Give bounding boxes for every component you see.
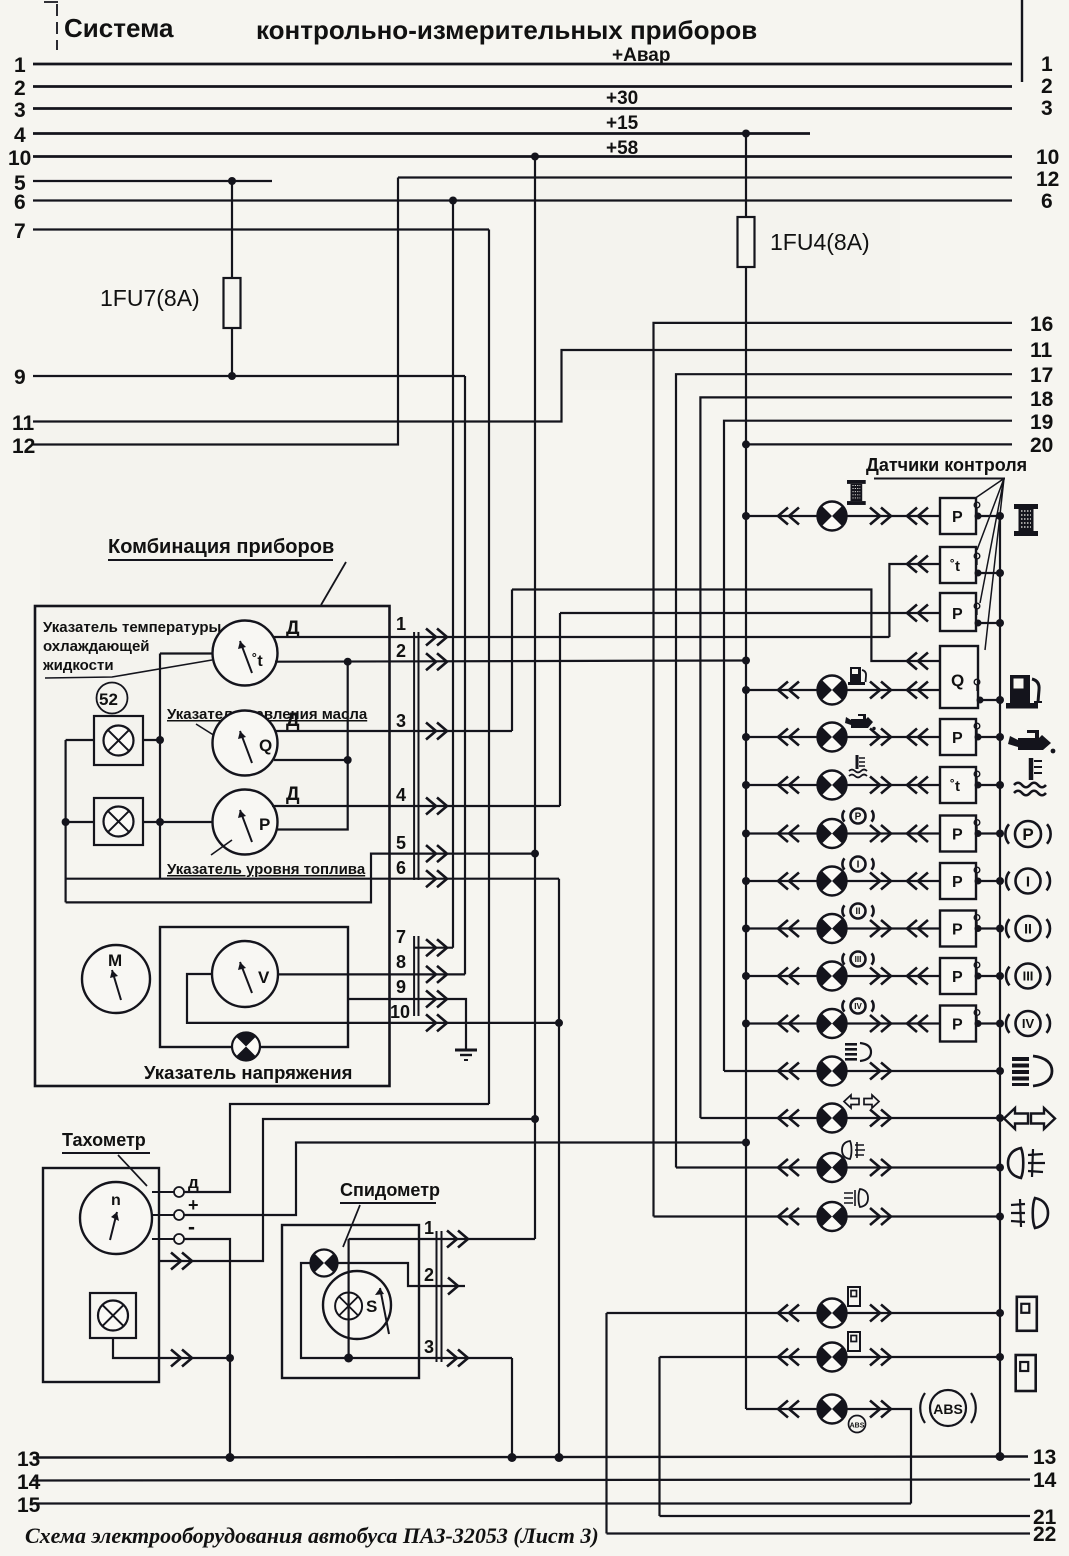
junction line4/fuse xyxy=(742,130,750,138)
svg-text:2: 2 xyxy=(14,77,26,100)
icon brake III big xyxy=(1016,964,1041,989)
svg-text:1: 1 xyxy=(424,1218,434,1238)
wire lamp1 right xyxy=(143,739,160,741)
fuse 1FU4 xyxy=(738,217,755,267)
sensor row brake II xyxy=(746,927,940,929)
indicator row turn signals xyxy=(700,1117,1000,1119)
ABS indicator row xyxy=(746,1409,911,1504)
leader to cluster box xyxy=(321,562,346,605)
vertical line6 to cluster pin7 xyxy=(452,201,454,948)
junction pin5/line10 feed xyxy=(531,850,539,858)
speedo connector bars xyxy=(437,1231,442,1362)
svg-text:II: II xyxy=(1024,921,1032,937)
wire speedo lamp left loop xyxy=(301,1263,512,1358)
svg-text:6: 6 xyxy=(1041,190,1053,213)
wire cluster pin9 to ground xyxy=(348,999,466,1050)
svg-text:Д: Д xyxy=(286,618,300,639)
junction lamp1/gauge bus xyxy=(156,736,164,744)
lamp L2 xyxy=(104,807,134,837)
icon turn small xyxy=(844,1095,879,1108)
svg-text:15: 15 xyxy=(17,1494,41,1517)
svg-text:3: 3 xyxy=(14,99,26,122)
icon turn big xyxy=(1004,1108,1055,1129)
cluster connector bars lower xyxy=(414,936,418,1016)
svg-text:охлаждающей: охлаждающей xyxy=(43,638,150,655)
indicator row high beam xyxy=(724,1070,1000,1072)
svg-text:1: 1 xyxy=(396,614,406,634)
lamp 52 label xyxy=(97,683,128,714)
wire cluster pin2 xyxy=(275,661,746,662)
svg-text:III: III xyxy=(1023,969,1034,984)
svg-text:IV: IV xyxy=(854,1002,862,1011)
svg-text:Схема электрооборудования авто: Схема электрооборудования автобуса ПАЗ-3… xyxy=(25,1523,599,1548)
icon door 2 small xyxy=(848,1332,860,1351)
icon brake IV small xyxy=(851,999,866,1014)
svg-text:n: n xyxy=(111,1192,121,1209)
svg-text:P: P xyxy=(952,606,963,623)
icon air filter small xyxy=(847,480,866,505)
junction oil gauge/minus bus xyxy=(344,756,352,764)
svg-text:P: P xyxy=(952,730,963,747)
svg-text:52: 52 xyxy=(99,690,118,709)
wire bus 17 xyxy=(676,374,1012,1167)
icon marker lamps small xyxy=(842,1141,865,1159)
vertical line9 to cluster pin8 xyxy=(464,376,466,974)
svg-text:22: 22 xyxy=(1033,1523,1056,1546)
wire pin3 to fuel sensor xyxy=(512,590,940,662)
wire tach lamp to minus drop xyxy=(113,1338,230,1358)
svg-text:7: 7 xyxy=(14,220,26,243)
wire bus 21 xyxy=(660,1515,1031,1517)
speedo lamp string vertical xyxy=(348,1239,350,1358)
svg-text:20: 20 xyxy=(1030,434,1053,457)
svg-text:9: 9 xyxy=(14,366,26,389)
svg-text:3: 3 xyxy=(1041,97,1053,120)
cluster box Комбинация приборов xyxy=(35,606,390,1086)
svg-text:Спидометр: Спидометр xyxy=(340,1180,440,1200)
wire cluster pin3 xyxy=(275,730,512,732)
icon brake IV big xyxy=(1016,1011,1041,1036)
icon oil can big xyxy=(1008,730,1055,753)
speedo gauge circle S xyxy=(323,1271,391,1339)
wire bus 22 xyxy=(607,1532,1031,1534)
svg-text:I: I xyxy=(1026,873,1030,890)
svg-text:18: 18 xyxy=(1030,388,1054,411)
ground xyxy=(455,1049,477,1052)
svg-text:жидкости: жидкости xyxy=(42,657,114,674)
svg-text:11: 11 xyxy=(1030,339,1053,362)
wire bus 15 xyxy=(33,1502,911,1504)
junction pin10/line13 drop xyxy=(555,1019,563,1027)
svg-text:P: P xyxy=(952,874,963,891)
icon door 1 small xyxy=(848,1287,860,1306)
svg-text:16: 16 xyxy=(1030,313,1053,336)
vertical line10 feed to speedometer pin1 xyxy=(534,157,536,1240)
tach lamp box xyxy=(90,1293,136,1338)
svg-text:13: 13 xyxy=(17,1448,40,1471)
icon door 2 big xyxy=(1016,1355,1036,1391)
wire bus 9 xyxy=(33,375,465,377)
wire oil gauge lower xyxy=(274,759,348,761)
vertical cluster pin4 to oil sensor wire xyxy=(559,613,561,806)
wire pin1 to temp sensor xyxy=(889,564,940,637)
sensor row coolant temp xyxy=(746,784,940,786)
wire bus 12 left xyxy=(33,178,398,445)
svg-text:3: 3 xyxy=(396,711,406,731)
speedo inner lamp xyxy=(335,1293,362,1320)
svg-text:3: 3 xyxy=(424,1337,434,1357)
svg-text:6: 6 xyxy=(14,191,26,214)
svg-text:-: - xyxy=(188,1216,195,1239)
junction lamp2/left bus xyxy=(62,818,70,826)
junctions on line 13 xyxy=(226,1453,235,1462)
svg-text:6: 6 xyxy=(396,858,406,878)
leader to tach box xyxy=(118,1155,147,1186)
wire bus 2 xyxy=(33,85,1012,88)
svg-text:9: 9 xyxy=(396,977,406,997)
wire + to lamp bus xyxy=(184,1143,746,1216)
wire bus 14 xyxy=(33,1480,1030,1481)
tach terminal - xyxy=(152,1238,174,1240)
leader fan to sensors xyxy=(974,479,1004,651)
speedo two-tone lamp xyxy=(311,1250,338,1277)
vertical door1 to line22 xyxy=(605,1313,607,1534)
svg-text:Комбинация приборов: Комбинация приборов xyxy=(108,536,334,558)
junction lamp string / pin3 wire xyxy=(344,1354,353,1363)
indicator row door 1 xyxy=(607,1312,1001,1314)
wire bus 19 xyxy=(724,421,1012,1071)
svg-text:Д: Д xyxy=(286,784,300,805)
icon ABS small xyxy=(849,1416,866,1433)
wire bus 20 xyxy=(746,443,1012,445)
svg-text:I: I xyxy=(857,860,860,871)
wire д to line7 drop xyxy=(184,1104,489,1192)
svg-text:11: 11 xyxy=(12,412,35,435)
wire voltmeter plus pin8 xyxy=(278,973,465,975)
tach output wire to speedo feed xyxy=(159,1119,535,1261)
svg-text:Указатель уровня топлива: Указатель уровня топлива xyxy=(167,861,366,878)
junction line20/lamp bus xyxy=(742,440,750,448)
wire bus 6 xyxy=(33,199,1012,201)
sensor box coolant temp gauge sender xyxy=(940,547,976,583)
indicator row door 2 xyxy=(660,1356,1001,1358)
connector arrows pins1-10 xyxy=(426,629,447,646)
icon brake III small xyxy=(851,952,866,967)
sensor row brake IV xyxy=(746,1022,940,1024)
icon brake I small xyxy=(851,857,866,872)
svg-text:Q: Q xyxy=(259,736,272,755)
icon brake II small xyxy=(851,904,866,919)
leader to temp gauge xyxy=(45,660,212,678)
icon fog big xyxy=(1011,1198,1048,1228)
wire lamp2 left xyxy=(66,821,94,823)
junction line10 xyxy=(531,153,539,161)
tach terminal + xyxy=(152,1214,174,1216)
junction pin2/lamp bus xyxy=(742,657,750,665)
sensor row park brake xyxy=(746,832,940,834)
temp gauge circle xyxy=(213,621,278,686)
svg-text:7: 7 xyxy=(396,927,406,947)
wire bus 10 (+58) xyxy=(33,155,1012,158)
svg-text:+15: +15 xyxy=(606,113,639,134)
svg-text:Указатель напряжения: Указатель напряжения xyxy=(144,1062,352,1083)
tach terminal д xyxy=(152,1191,174,1193)
icon marker lamps big xyxy=(1008,1148,1045,1178)
svg-text:ABS: ABS xyxy=(850,1423,865,1430)
junction lamp2/gauge bus xyxy=(156,818,164,826)
svg-text:P: P xyxy=(952,922,963,939)
gauge left bus vertical xyxy=(159,654,161,879)
wire bus 18 xyxy=(700,397,1012,1118)
wire cluster pin7 stub xyxy=(414,947,453,949)
icon fuel small xyxy=(848,667,866,685)
svg-text:1: 1 xyxy=(1041,53,1053,76)
wire bus 12 right xyxy=(398,176,1012,178)
junction + wire / lamp bus xyxy=(742,1139,750,1147)
sensor box oil pressure sender xyxy=(940,593,976,631)
junction line6 xyxy=(449,197,457,205)
svg-text:контрольно-измерительных прибо: контрольно-измерительных приборов xyxy=(256,15,757,45)
lamps left bus vertical xyxy=(64,740,66,902)
wire bus 11 left xyxy=(33,350,1012,422)
wire bus 1 xyxy=(33,63,1012,66)
wire cluster pin5 jumper xyxy=(66,854,535,903)
svg-text:19: 19 xyxy=(1030,411,1053,434)
cluster connector bars upper xyxy=(414,632,418,880)
svg-text:д: д xyxy=(188,1173,199,1192)
svg-text:P: P xyxy=(855,812,862,823)
icon coolant temp big xyxy=(1014,758,1046,795)
svg-text:4: 4 xyxy=(396,785,406,805)
wire pin4 to oil pressure sensor xyxy=(560,612,940,614)
svg-text:14: 14 xyxy=(17,1471,41,1494)
vertical door2 to line21 xyxy=(658,1357,660,1516)
svg-text:1FU7(8A): 1FU7(8A) xyxy=(100,285,200,311)
leader to oil gauge xyxy=(196,724,223,741)
svg-text:M: M xyxy=(108,951,122,970)
junction pin2/minus bus xyxy=(344,658,352,666)
icon door 1 big xyxy=(1017,1297,1037,1331)
svg-text:P: P xyxy=(952,509,963,526)
wire cluster pin1 xyxy=(273,636,889,638)
wire bus 7 xyxy=(33,228,489,230)
svg-text:Система: Система xyxy=(64,13,174,43)
junction tach output / line10 feed xyxy=(531,1115,539,1123)
svg-text:P: P xyxy=(952,1017,963,1034)
icon brake I big xyxy=(1016,869,1041,894)
svg-text:Датчики контроля: Датчики контроля xyxy=(866,455,1027,475)
svg-text:1FU4(8A): 1FU4(8A) xyxy=(770,229,870,255)
svg-text:10: 10 xyxy=(1036,146,1059,169)
icon park brake small xyxy=(851,809,866,824)
svg-text:10: 10 xyxy=(390,1002,410,1022)
wire speedo lamp right to pin2 xyxy=(338,1263,466,1286)
wire - terminal to line13 xyxy=(184,1239,230,1458)
junction lamp wire / minus drop xyxy=(226,1354,234,1362)
wire speedo pin3 to line13 xyxy=(511,1358,513,1458)
svg-text:II: II xyxy=(855,906,860,916)
svg-text:+: + xyxy=(188,1195,199,1215)
minus bus vertical (gauges) xyxy=(277,662,348,830)
svg-text:12: 12 xyxy=(1036,168,1059,191)
wire temp gauge left xyxy=(160,652,213,654)
leader to speedo box xyxy=(343,1205,360,1247)
wire lamp2 right to fuel gauge xyxy=(143,821,213,823)
svg-text:17: 17 xyxy=(1030,364,1053,387)
speedometer box xyxy=(282,1225,419,1378)
lamp box 1 xyxy=(94,716,143,765)
svg-text:V: V xyxy=(258,968,270,987)
oil pressure gauge circle xyxy=(213,711,278,776)
lamp feed bus vertical (line4 to ABS row) xyxy=(745,134,747,1410)
icon high beam small xyxy=(845,1043,871,1061)
wire cluster pin6 xyxy=(66,878,559,880)
svg-text:P: P xyxy=(1022,825,1033,844)
wire speedo pin1 xyxy=(349,1238,535,1240)
svg-text:˚t: ˚t xyxy=(950,558,960,575)
sensor row air filter xyxy=(746,515,940,517)
svg-text:14: 14 xyxy=(1033,1469,1057,1492)
sensor row brake I xyxy=(746,880,940,882)
svg-text:10: 10 xyxy=(8,147,31,170)
svg-text:˚t: ˚t xyxy=(950,778,960,795)
wire lamp1 left xyxy=(66,739,94,741)
vertical cluster pin6 to line13 xyxy=(558,879,560,1458)
wire bus 5 xyxy=(33,180,272,182)
voltmeter gauge circle xyxy=(212,941,278,1007)
tach gauge circle n xyxy=(80,1182,152,1254)
wire bus 13 xyxy=(33,1457,1028,1458)
fuse 1FU7 xyxy=(231,181,233,376)
M gauge circle xyxy=(82,945,150,1013)
svg-text:5: 5 xyxy=(396,833,406,853)
svg-text:2: 2 xyxy=(396,641,406,661)
sensor row brake III xyxy=(746,975,940,977)
indicator row fog lamp xyxy=(654,1215,1001,1217)
svg-text:1: 1 xyxy=(14,54,26,77)
svg-text:2: 2 xyxy=(1041,75,1053,98)
icon air filter big xyxy=(1014,504,1038,536)
leader to fuel gauge xyxy=(211,840,232,855)
svg-text:Указатель температуры: Указатель температуры xyxy=(43,619,221,636)
svg-text:8: 8 xyxy=(396,952,406,972)
speedo connector arrows xyxy=(447,1231,468,1248)
svg-text:4: 4 xyxy=(14,124,26,147)
indicator row marker lamps xyxy=(676,1166,1000,1168)
junction line9/fuse xyxy=(228,372,236,380)
icon oil can small xyxy=(845,714,876,730)
wire bus 3 xyxy=(33,107,1012,110)
fuel level gauge circle xyxy=(213,790,278,855)
icon high beam big xyxy=(1012,1056,1052,1086)
voltage indicator lamp xyxy=(232,1032,260,1060)
lamp box 2 xyxy=(94,798,143,845)
svg-text:IV: IV xyxy=(1022,1016,1035,1031)
vertical line7 to tach д wire xyxy=(488,230,490,1105)
vertical cluster pin3 to sensor row xyxy=(511,590,513,732)
svg-text:Тахометр: Тахометр xyxy=(62,1130,146,1150)
svg-text:III: III xyxy=(855,955,862,964)
svg-text:P: P xyxy=(952,969,963,986)
svg-text:Q: Q xyxy=(951,671,964,690)
icon ABS big xyxy=(930,1390,966,1426)
wire bus 16 xyxy=(654,323,1013,1217)
border dash top-left xyxy=(44,2,58,50)
svg-text:˚t: ˚t xyxy=(252,653,263,670)
sensor row oil pressure xyxy=(746,736,940,738)
border mark top-right xyxy=(1021,0,1023,82)
svg-text:12: 12 xyxy=(12,435,35,458)
junction line5/fuse xyxy=(228,177,236,185)
icon coolant temp small xyxy=(849,755,867,778)
svg-text:ABS: ABS xyxy=(933,1401,963,1417)
wire bus 4 (+15) xyxy=(33,132,810,135)
svg-text:13: 13 xyxy=(1033,1446,1056,1469)
icon fuel pump big xyxy=(1006,675,1042,709)
svg-text:P: P xyxy=(952,827,963,844)
sensor row fuel level xyxy=(746,689,940,691)
tach lamp xyxy=(98,1301,128,1331)
voltmeter inner box xyxy=(160,927,348,1047)
svg-text:2: 2 xyxy=(424,1265,434,1285)
icon brake II big xyxy=(1016,916,1041,941)
wire voltmeter minus to pin10 xyxy=(187,974,559,1023)
svg-text:+30: +30 xyxy=(606,88,638,109)
lamp L1 xyxy=(104,726,134,756)
wire cluster pin4 xyxy=(272,805,560,807)
sensor return bus right xyxy=(999,516,1001,1456)
icon park brake big xyxy=(1015,821,1041,847)
svg-text:S: S xyxy=(366,1297,377,1316)
icon fog small xyxy=(844,1189,868,1207)
svg-text:P: P xyxy=(259,815,270,834)
tachometer box xyxy=(43,1168,159,1382)
svg-text:Д: Д xyxy=(286,710,300,731)
